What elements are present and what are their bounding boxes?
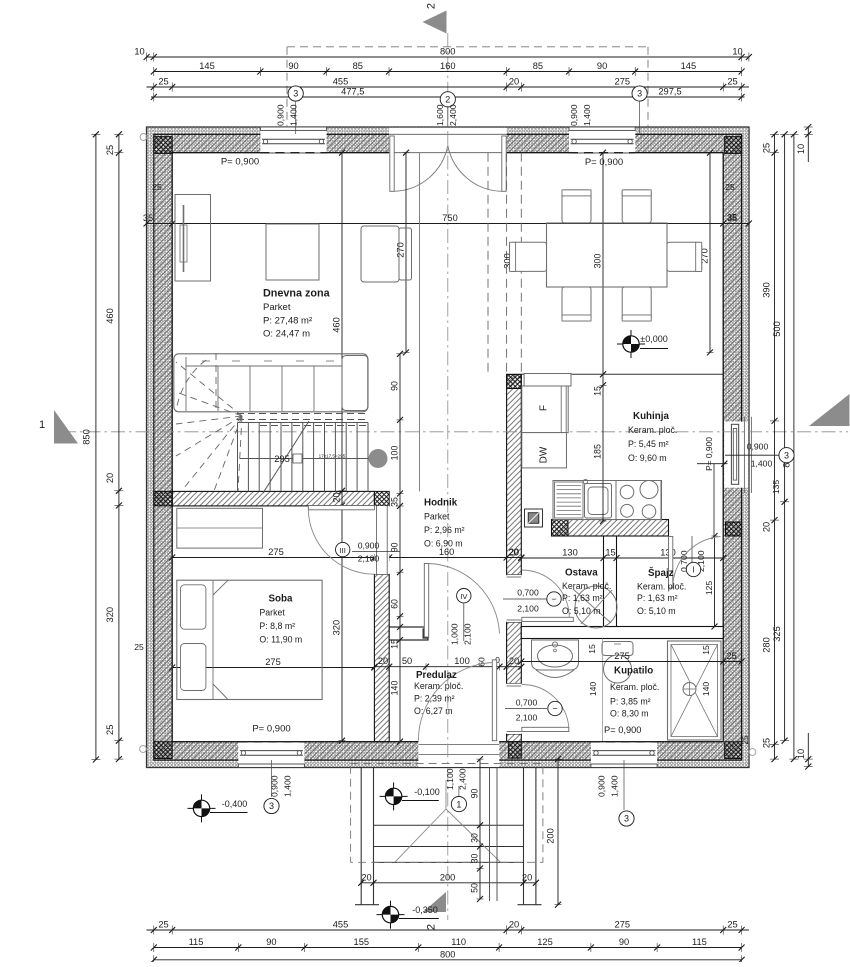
block partition left end: [154, 491, 172, 506]
svg-text:295: 295: [274, 454, 290, 464]
axis marker 2 top triangle: [423, 3, 447, 34]
svg-text:125: 125: [704, 581, 714, 596]
svg-text:110: 110: [451, 937, 466, 947]
kitchen window inner dim line: [697, 461, 728, 536]
kupatilo door: opening in wall A: [507, 684, 522, 735]
kitchen south wall: [552, 520, 669, 537]
axis marker 2 bottom triangle: [423, 892, 446, 930]
predulaz dim row 20/50/100/20: [372, 656, 525, 670]
svg-text:3: 3: [293, 89, 298, 99]
svg-text:25: 25: [741, 735, 750, 745]
door tag IV with 1,000/2,100: [450, 589, 473, 646]
section marker 1 right triangle: [809, 394, 850, 426]
svg-text:140: 140: [701, 682, 711, 697]
svg-text:25: 25: [726, 651, 736, 661]
svg-text:320: 320: [105, 607, 115, 623]
svg-text:O: 5,10 m: O: 5,10 m: [562, 606, 601, 616]
outer wall masonry band: [154, 134, 742, 760]
hodnik/predulaz wall stub: [389, 627, 428, 640]
ostava door leaf and arc: [522, 570, 574, 622]
svg-text:I: I: [692, 565, 694, 575]
svg-text:3: 3: [624, 814, 629, 824]
svg-text:140: 140: [390, 681, 400, 696]
svg-text:90: 90: [390, 542, 400, 552]
room text Kupatilo: [604, 666, 659, 736]
svg-text:25: 25: [158, 920, 168, 930]
svg-text:0,700: 0,700: [516, 698, 538, 708]
interior vertical dim x=400 chain 90/100/35/90/60/15/140: [390, 351, 404, 745]
window W1 opening top-left: [260, 127, 326, 153]
svg-text:2,100: 2,100: [516, 713, 538, 723]
svg-text:P: 3,85 m²: P: 3,85 m²: [610, 697, 651, 707]
svg-text:3: 3: [269, 801, 274, 811]
svg-text:280: 280: [762, 637, 772, 653]
interior wall A middle pier: [507, 622, 522, 683]
svg-text:20: 20: [105, 473, 115, 483]
top canopy dashed outline: [287, 47, 648, 127]
svg-text:P= 0,900: P= 0,900: [704, 437, 714, 471]
kupatilo north partition: [521, 627, 723, 639]
svg-text:25: 25: [727, 77, 737, 87]
wall label 35 right top / 25: [725, 182, 737, 222]
top dim row 25/455/20/275/25: [147, 77, 750, 92]
svg-text:0,900: 0,900: [569, 104, 579, 126]
svg-text:O: 6,27 m: O: 6,27 m: [414, 706, 453, 716]
svg-text:P: 27,48 m²: P: 27,48 m²: [263, 316, 312, 327]
svg-text:1,400: 1,400: [289, 104, 299, 126]
svg-text:P: 1,63 m²: P: 1,63 m²: [637, 593, 678, 603]
svg-text:750: 750: [442, 213, 458, 223]
dining vertical dim 300 x=603 and kitchen chain 15/185: [593, 150, 607, 524]
svg-text:Keram. ploč.: Keram. ploč.: [637, 582, 686, 592]
svg-text:P= 0,900: P= 0,900: [252, 724, 290, 735]
svg-text:Ostava: Ostava: [565, 568, 598, 579]
svg-text:275: 275: [615, 920, 631, 930]
window W1 axis line and labels: [276, 101, 299, 134]
svg-text:1,400: 1,400: [582, 104, 592, 126]
svg-text:160: 160: [440, 61, 456, 71]
svg-text:200: 200: [546, 828, 556, 844]
soba dim row 275 lower: [169, 657, 377, 671]
svg-text:90: 90: [597, 61, 607, 71]
dining-right vertical dim 270 x=710: [700, 150, 714, 356]
elevation marker -0,350: [377, 901, 439, 929]
svg-text:140: 140: [588, 682, 598, 697]
svg-text:130: 130: [660, 548, 676, 558]
svg-text:500: 500: [772, 321, 782, 337]
svg-text:90: 90: [619, 937, 629, 947]
spajz dim 125: [704, 533, 718, 630]
ostava door tag minus 0,700/2,100: [503, 588, 561, 614]
flue shaft square: [525, 509, 543, 527]
entrance double door D1 top opening: [389, 128, 507, 154]
svg-text:275: 275: [614, 651, 630, 661]
soba dim row 275 upper: [169, 547, 377, 561]
svg-text:P: 2,96 m²: P: 2,96 m²: [424, 525, 465, 535]
svg-text:145: 145: [199, 61, 215, 71]
svg-text:Kuhinja: Kuhinja: [633, 411, 669, 422]
svg-text:2: 2: [426, 3, 438, 9]
svg-text:25: 25: [762, 143, 772, 153]
bottom dim row 25/455/20/275/25: [147, 920, 750, 935]
svg-text:125: 125: [537, 937, 553, 947]
svg-text:Keram. ploč.: Keram. ploč.: [414, 681, 463, 691]
entrance door D2 leaf and arc: [418, 660, 496, 741]
svg-text:25: 25: [727, 920, 737, 930]
svg-text:±0,000: ±0,000: [640, 334, 667, 344]
top dim row 145/90/85/160/85/90/145: [151, 61, 745, 76]
dining dashed boundary lines: [420, 153, 522, 492]
section marker 1 left triangle: [39, 410, 78, 444]
svg-text:15: 15: [701, 645, 711, 655]
svg-text:20: 20: [361, 872, 371, 882]
svg-text:2,400: 2,400: [448, 104, 458, 126]
bottom window W4 axis circle 3: [264, 760, 293, 814]
dining dim line 270 x=406: [396, 150, 410, 356]
svg-text:25: 25: [105, 725, 115, 735]
outer wall insulation band: [147, 127, 750, 768]
svg-text:25: 25: [152, 182, 162, 192]
svg-text:Hodnik: Hodnik: [424, 498, 458, 509]
svg-text:F: F: [539, 405, 550, 411]
svg-text:−: −: [551, 594, 556, 604]
svg-text:130: 130: [562, 548, 578, 558]
svg-text:O: 9,60 m: O: 9,60 m: [628, 453, 667, 463]
block wall A top: [507, 374, 522, 388]
kitchen tall units F/DW: [522, 374, 571, 468]
svg-text:90: 90: [470, 789, 480, 799]
svg-text:390: 390: [762, 282, 772, 298]
svg-text:15: 15: [390, 639, 400, 649]
right dim 850: [781, 131, 798, 762]
right window W3 dim 135 and axis circle: [725, 442, 794, 495]
svg-text:3: 3: [637, 89, 642, 99]
svg-text:20: 20: [378, 656, 388, 666]
svg-text:155: 155: [354, 937, 370, 947]
left dim 850: [81, 131, 100, 762]
svg-text:2,100: 2,100: [517, 604, 539, 614]
svg-text:35: 35: [390, 497, 400, 507]
elevation marker -0,400: [188, 794, 248, 822]
svg-text:Predulaz: Predulaz: [416, 670, 457, 681]
svg-text:460: 460: [332, 317, 342, 333]
corner block bottom-left: [154, 742, 172, 759]
ostava door: opening in wall A: [507, 575, 522, 622]
spajz door leaf and arc (kitchen wall): [669, 537, 721, 589]
svg-text:185: 185: [593, 444, 603, 459]
ostava/spajz divider wall: [604, 536, 617, 627]
room text Predulaz: [414, 670, 463, 716]
svg-text:-0,400: -0,400: [222, 799, 248, 809]
svg-text:15: 15: [605, 548, 615, 558]
interior wall A bottom stub: [507, 734, 522, 742]
stair treads lines: [238, 423, 369, 492]
svg-text:0,900: 0,900: [276, 104, 286, 126]
right dim 10 labels: [796, 124, 813, 770]
section axis 1 horizontal dash-dot line: [62, 431, 848, 433]
svg-text:85: 85: [353, 61, 363, 71]
svg-text:0,900: 0,900: [270, 775, 280, 797]
svg-text:IV: IV: [460, 592, 468, 601]
svg-text:Soba: Soba: [269, 594, 294, 605]
svg-text:P= 0,900: P= 0,900: [585, 157, 623, 168]
bed: [177, 580, 322, 699]
svg-text:200: 200: [440, 872, 456, 882]
svg-text:P= 0,900: P= 0,900: [604, 725, 641, 735]
svg-text:DW: DW: [539, 446, 550, 463]
svg-text:Parket: Parket: [263, 302, 291, 313]
svg-text:10: 10: [134, 47, 144, 57]
svg-text:Dnevna zona: Dnevna zona: [263, 288, 331, 300]
stair winder dashed fan: [176, 353, 242, 491]
soba east wall: [374, 574, 389, 742]
svg-text:60: 60: [390, 599, 400, 609]
hodnik dim row 160: [371, 547, 524, 561]
svg-text:P: 2,39 m²: P: 2,39 m²: [414, 694, 455, 704]
interior vertical dim x=342 chain 460/20/320: [332, 150, 346, 744]
bottom dim row 800: [151, 949, 745, 964]
svg-text:O: 5,10 m: O: 5,10 m: [637, 606, 676, 616]
svg-text:15: 15: [587, 644, 597, 654]
svg-text:275: 275: [615, 77, 631, 87]
svg-text:10: 10: [796, 144, 806, 154]
svg-text:2,100: 2,100: [358, 554, 380, 564]
svg-text:Parket: Parket: [424, 512, 450, 522]
top axis row with circles 3/2/3: [151, 86, 745, 107]
wc niche line: [602, 639, 604, 742]
dining table: [547, 223, 668, 287]
kitchen counter with sink: [553, 479, 662, 519]
svg-text:P: 5,45 m²: P: 5,45 m²: [628, 439, 669, 449]
porch steps: [374, 825, 524, 862]
spajz door dims 0,700/2,100 rotated: [679, 536, 706, 577]
svg-text:2: 2: [426, 924, 438, 930]
hose bib circles on walls: [140, 134, 756, 756]
svg-text:0,900: 0,900: [358, 541, 380, 551]
svg-text:320: 320: [332, 620, 342, 636]
svg-text:1: 1: [456, 799, 461, 809]
svg-text:90: 90: [390, 381, 400, 391]
top dim row 800: [134, 47, 752, 62]
room text Ostava: [562, 568, 611, 617]
svg-text:270: 270: [396, 242, 406, 258]
svg-text:800: 800: [440, 47, 456, 57]
svg-text:1,600: 1,600: [435, 104, 445, 126]
svg-text:115: 115: [692, 937, 707, 947]
left dim chain 25/460/20/320/25: [105, 131, 124, 762]
right dim chain 500/325: [772, 131, 789, 743]
svg-text:15: 15: [593, 386, 603, 396]
living/soba partition wall: [172, 491, 374, 506]
svg-text:20: 20: [509, 77, 519, 87]
corner block top-right: [725, 137, 742, 154]
wall labels 35/25 top-left: [134, 182, 750, 745]
toilet: [602, 642, 633, 684]
svg-text:20: 20: [509, 656, 519, 666]
svg-text:50: 50: [470, 883, 480, 893]
room text Kuhinja: [628, 411, 677, 463]
svg-text:477,5: 477,5: [341, 87, 364, 97]
sofa: [174, 354, 368, 412]
soba door: opening sill lines: [374, 506, 389, 574]
svg-text:O: 6,90 m: O: 6,90 m: [424, 539, 463, 549]
axis 2 vertical dash-dot line: [447, 33, 449, 920]
porch ramp diagonals: [395, 780, 501, 862]
corner block top-left: [154, 137, 172, 154]
entrance door D2 bottom opening: [418, 741, 499, 767]
svg-text:35: 35: [727, 213, 737, 223]
svg-text:P= 0,900: P= 0,900: [221, 157, 259, 168]
stove with burners: [616, 481, 661, 520]
dining chairs: [510, 190, 702, 321]
svg-text:100: 100: [454, 656, 470, 666]
predulaz small dims 60/10: [477, 655, 501, 667]
window W2 opening top-right: [569, 127, 635, 153]
kupatilo door dims 0,700/2,100: [505, 698, 562, 723]
block kitchen wall east end: [726, 522, 742, 536]
ostava dim row 20/130/15/130: [508, 548, 726, 562]
room text Soba: [259, 594, 302, 645]
svg-text:20: 20: [522, 872, 532, 882]
svg-text:145: 145: [681, 61, 697, 71]
svg-text:Keram. ploč.: Keram. ploč.: [628, 425, 677, 435]
porch dim row 20/200/20: [358, 872, 539, 886]
svg-text:1,400: 1,400: [283, 775, 293, 797]
svg-text:10: 10: [796, 749, 806, 759]
svg-text:O: 24,47 m: O: 24,47 m: [263, 329, 310, 340]
svg-text:455: 455: [333, 920, 349, 930]
stair direction line with start dot: [240, 449, 388, 468]
svg-text:Keram. ploč.: Keram. ploč.: [610, 682, 659, 692]
svg-text:P: 1,63 m²: P: 1,63 m²: [562, 593, 603, 603]
stair break line: [263, 421, 309, 493]
room text Hodnik: [424, 498, 465, 549]
door D1 axis labels: [435, 104, 458, 127]
bottom window W5 axis circle 3: [597, 760, 635, 826]
svg-text:17x17,5=295: 17x17,5=295: [319, 454, 346, 459]
double door D1 leaves and swing arcs: [390, 136, 506, 191]
svg-text:-0,350: -0,350: [412, 905, 438, 915]
svg-text:−: −: [552, 704, 557, 714]
porch axis circle 1 with 1,100/2,400: [445, 768, 468, 811]
svg-text:25: 25: [725, 182, 735, 192]
svg-text:325: 325: [772, 626, 782, 642]
window W4 opening bottom (Soba): [238, 742, 304, 768]
wardrobe: [177, 508, 263, 548]
svg-text:1,400: 1,400: [751, 459, 773, 469]
armchair: [361, 226, 412, 282]
svg-text:300: 300: [593, 254, 603, 269]
svg-text:800: 800: [440, 949, 456, 959]
svg-text:Špajz: Špajz: [648, 567, 674, 579]
svg-text:Kupatilo: Kupatilo: [614, 666, 653, 677]
soba door leaf and arc: [308, 506, 374, 575]
elevation marker +-0,000: [617, 330, 668, 358]
shower: [668, 641, 722, 740]
svg-text:1,400: 1,400: [610, 775, 620, 797]
kupatilo small dims 15/140 x2: [587, 644, 711, 696]
svg-text:2,100: 2,100: [463, 623, 473, 645]
svg-text:25: 25: [134, 642, 144, 652]
svg-text:Parket: Parket: [259, 608, 285, 618]
svg-text:P: 8,8 m²: P: 8,8 m²: [259, 621, 295, 631]
svg-text:35: 35: [143, 213, 153, 223]
washbasin: [532, 640, 579, 678]
parapet labels P=0,900: [221, 157, 623, 735]
svg-text:50: 50: [402, 656, 412, 666]
svg-text:115: 115: [189, 937, 204, 947]
elevation marker -0,100: [380, 782, 440, 810]
kitchen north boundary line: [521, 373, 723, 375]
interior wall A upper segment (dining/kitchen divider): [507, 374, 522, 574]
ostava boiler circle with X: [573, 586, 617, 628]
porch vertical dim 90/30/30/50: [470, 756, 484, 902]
porch side walls: [355, 768, 542, 905]
svg-text:1,100: 1,100: [445, 768, 455, 790]
window W3 opening right wall: [723, 417, 751, 493]
room text Dnevna zona: [263, 288, 331, 340]
kitchen dim line over counter: [602, 481, 604, 522]
svg-text:-0,100: -0,100: [414, 787, 440, 797]
window W5 opening bottom (Kupatilo): [591, 742, 657, 768]
svg-text:Keram. ploč.: Keram. ploč.: [562, 581, 611, 591]
hodnik door IV leaf and arc: [424, 564, 499, 638]
svg-text:90: 90: [288, 61, 298, 71]
svg-text:460: 460: [105, 308, 115, 324]
svg-text:2: 2: [445, 95, 450, 105]
svg-text:O: 8,30 m: O: 8,30 m: [610, 709, 649, 719]
porch walkway side lines: [490, 768, 498, 902]
svg-text:10: 10: [732, 47, 742, 57]
svg-text:0,900: 0,900: [747, 442, 769, 452]
svg-text:135: 135: [771, 480, 781, 495]
coffee table: [266, 224, 319, 280]
window W2 axis line and labels: [569, 101, 640, 134]
svg-text:275: 275: [268, 547, 284, 557]
svg-text:85: 85: [533, 61, 543, 71]
kupatilo door leaf and arc: [522, 684, 569, 731]
svg-text:0,900: 0,900: [597, 775, 607, 797]
svg-text:0,700: 0,700: [517, 588, 539, 598]
svg-text:20: 20: [762, 522, 772, 532]
interior dim 35/750/35 across top of rooms: [143, 213, 752, 227]
porch canopy dashed outline: [351, 764, 543, 863]
svg-text:90: 90: [266, 937, 276, 947]
porch vertical dim 200: [546, 756, 562, 908]
right wall parapet label rotated: [704, 437, 714, 471]
svg-text:455: 455: [333, 77, 349, 87]
TV cabinet left wall: [175, 195, 211, 282]
stair dashed flight above sofa: [237, 414, 368, 426]
svg-text:25: 25: [762, 738, 772, 748]
svg-text:O: 11,90 m: O: 11,90 m: [259, 635, 302, 645]
soba door tag III with 0,900/2,100: [336, 541, 401, 564]
svg-text:20: 20: [332, 492, 342, 502]
svg-text:25: 25: [105, 145, 115, 155]
svg-text:1: 1: [39, 419, 45, 431]
svg-text:30: 30: [470, 833, 480, 843]
svg-text:20: 20: [508, 548, 518, 558]
svg-text:3: 3: [784, 450, 789, 460]
svg-text:1,000: 1,000: [450, 623, 460, 645]
block wall A bottom: [509, 742, 522, 758]
bottom dim row 115/90/155/110/125/90/115: [151, 937, 745, 952]
room text Spajz: [637, 567, 686, 616]
dining vertical dim 300 left label: [503, 253, 513, 269]
corner block bottom-right: [725, 742, 742, 759]
svg-text:100: 100: [390, 446, 400, 461]
svg-text:20: 20: [509, 920, 519, 930]
